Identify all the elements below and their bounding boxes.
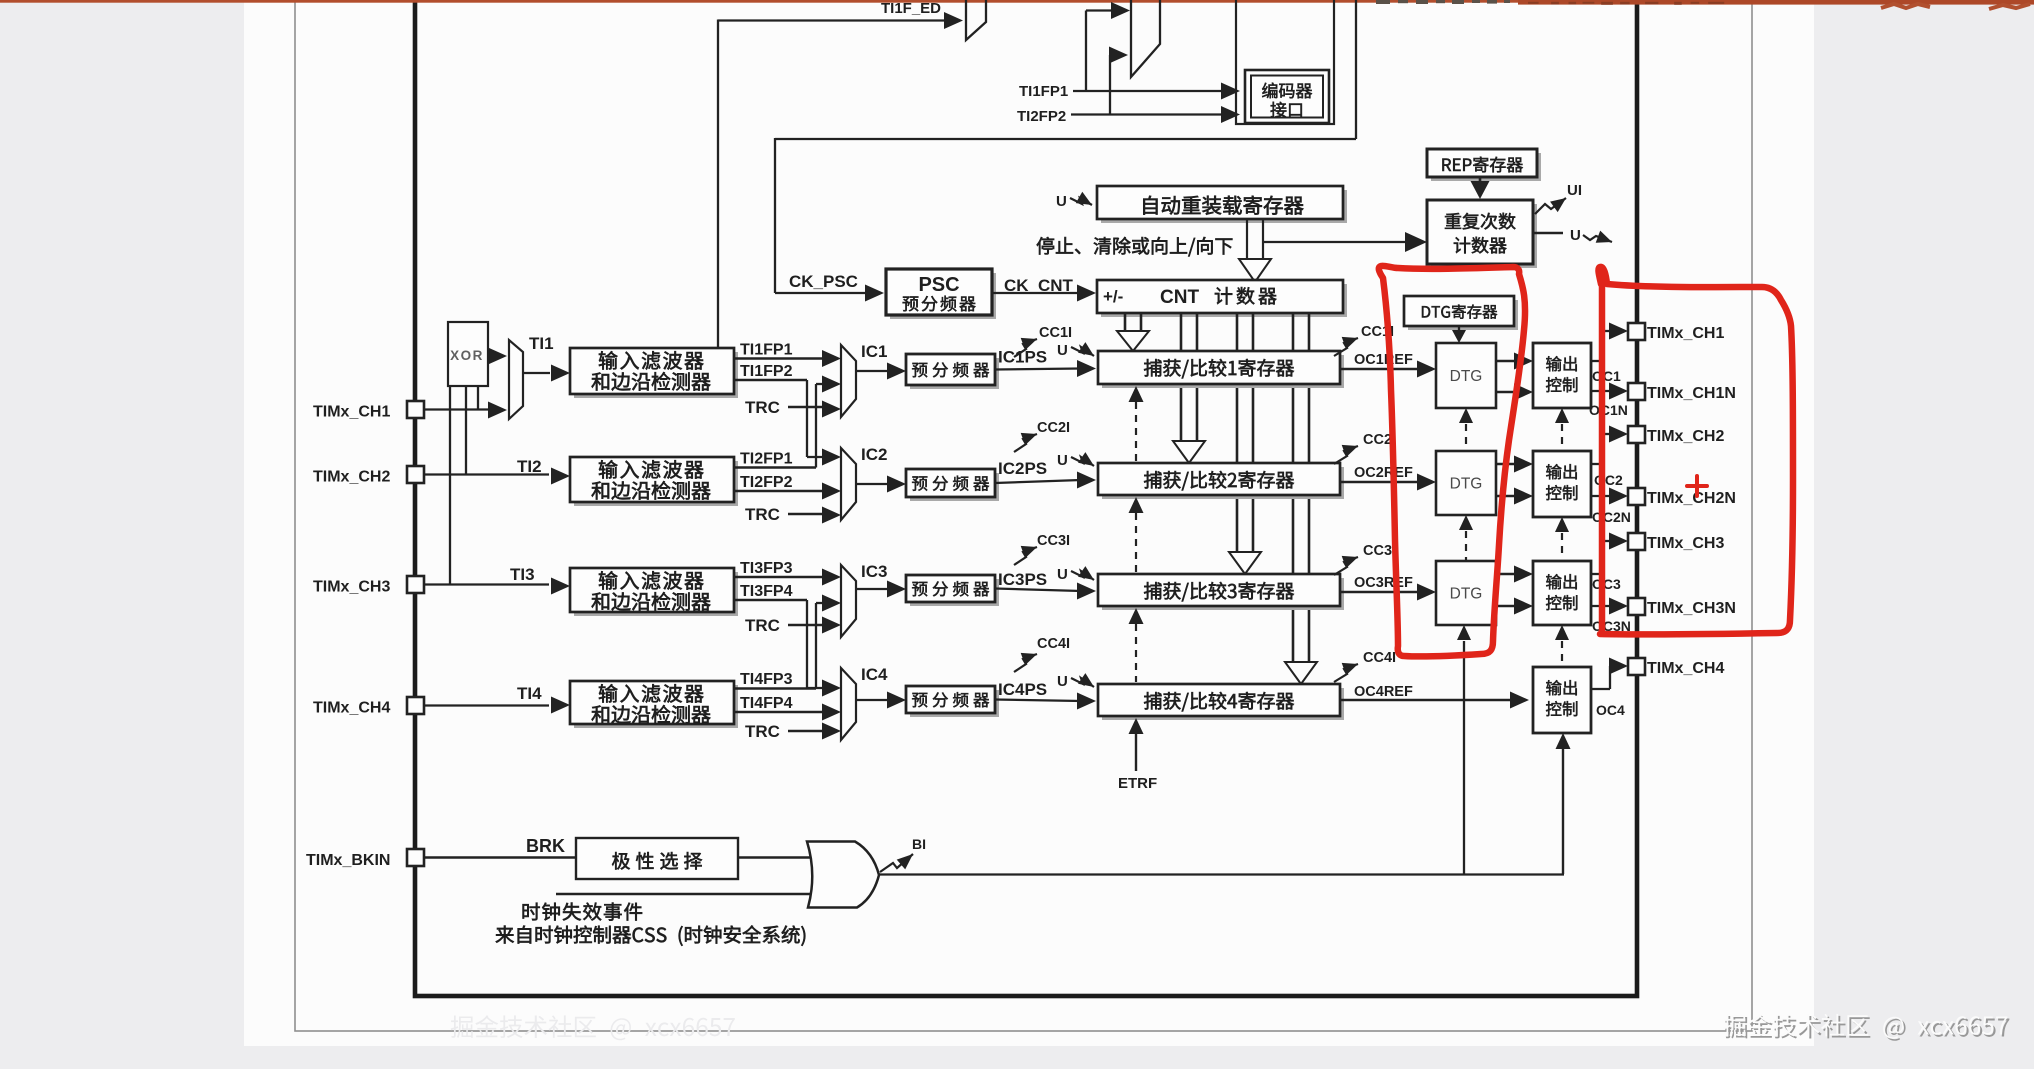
XOR box bbox=[448, 322, 488, 386]
label TIMx_BKIN bbox=[306, 852, 390, 869]
wire TI2FP2 to encoder bbox=[1071, 113, 1222, 115]
output control box 1 bbox=[1533, 343, 1591, 408]
wire TRC ch1 bbox=[788, 406, 824, 409]
label TI3FP3 bbox=[740, 560, 793, 577]
label CK_PSC bbox=[789, 272, 858, 291]
hollow arrow CNT to reg1 bbox=[1117, 313, 1149, 351]
output control text 3 l1 bbox=[1546, 574, 1577, 589]
output control text 4 l2 bbox=[1546, 701, 1577, 716]
ETRF arrow into reg4 bottom bbox=[1129, 718, 1144, 771]
label TIMx_CH2 bbox=[313, 469, 390, 486]
svg-text:IC3PS: IC3PS bbox=[998, 570, 1047, 589]
U event reg ch4 bbox=[1057, 673, 1094, 690]
capture/compare reg text ch3 bbox=[1144, 582, 1294, 601]
DTG box 1 bbox=[1436, 343, 1496, 408]
arrow TRC into IC1 mux bbox=[822, 401, 841, 418]
input filter box ch1 bbox=[570, 348, 738, 398]
svg-text:OC2N: OC2N bbox=[1592, 509, 1631, 525]
svg-text:TI1FP1: TI1FP1 bbox=[740, 342, 793, 359]
svg-text:CC3I: CC3I bbox=[1363, 543, 1396, 559]
repetition counter text l1 bbox=[1445, 213, 1516, 230]
output pin TIMx_CH2 bbox=[1628, 426, 1645, 443]
label TI4FP3 bbox=[740, 671, 793, 688]
arrow TRC into IC4 mux bbox=[822, 723, 841, 740]
wire prescaler to reg ch1 bbox=[995, 369, 1081, 370]
red annotation around DTG column bbox=[1379, 266, 1525, 657]
polarity select box bbox=[576, 838, 738, 879]
label TIMx_CH2N right bbox=[1647, 490, 1736, 507]
DTG text 2 bbox=[1450, 476, 1483, 493]
hollow arrow CNT to reg4 bbox=[1285, 313, 1317, 684]
wire U to repetition counter bbox=[1263, 241, 1409, 243]
label IC2 bbox=[861, 445, 887, 464]
CC3I left event arrow bbox=[1014, 546, 1037, 565]
XOR text bbox=[450, 348, 484, 363]
svg-text:TI2FP1: TI2FP1 bbox=[740, 451, 793, 468]
arrow into reg ch2 bbox=[1077, 472, 1096, 489]
filter text l1 ch4 bbox=[599, 684, 704, 703]
label TI2FP2 (encoder) bbox=[1017, 108, 1066, 125]
arrow DTG reg to DTG1 bbox=[1452, 326, 1466, 343]
REP register text bbox=[1442, 157, 1522, 173]
auto-reload text bbox=[1143, 196, 1303, 215]
capture/compare reg text ch4 bbox=[1144, 692, 1294, 711]
prescaler box ch1 bbox=[906, 354, 999, 389]
label TI1FP1 (encoder) bbox=[1019, 83, 1068, 100]
svg-text:OC2REF: OC2REF bbox=[1354, 465, 1413, 481]
IC mux ch2 bbox=[841, 448, 856, 520]
label CC1I left bbox=[1039, 325, 1072, 341]
arrow into CNT bbox=[1077, 285, 1096, 302]
mux output arrow ch2 bbox=[856, 476, 906, 493]
XOR output arrow bbox=[488, 348, 507, 365]
U event arrow right bbox=[1533, 227, 1612, 244]
svg-text:TI1: TI1 bbox=[529, 334, 554, 353]
DTG text 1 bbox=[1450, 368, 1483, 385]
output pin TIMx_CH4 bbox=[1628, 658, 1645, 675]
label ETRF bbox=[1118, 775, 1157, 792]
label CC4I right bbox=[1363, 650, 1396, 666]
U event reg ch2 bbox=[1057, 452, 1094, 469]
wire TI2FP2 up to flag bbox=[1110, 55, 1112, 115]
encoder text line2 bbox=[1270, 102, 1301, 118]
repetition counter box bbox=[1427, 200, 1537, 268]
svg-text:TIMx_CH3: TIMx_CH3 bbox=[313, 579, 390, 596]
stop clear text bbox=[1037, 237, 1233, 256]
trigger box bottom edge bbox=[775, 0, 1356, 139]
encoder interface box bbox=[1245, 70, 1329, 123]
mux output arrow ch4 bbox=[856, 692, 906, 709]
watermark juejin bbox=[1723, 1014, 2009, 1041]
IC mux ch3 bbox=[841, 565, 856, 637]
U event reg ch3 bbox=[1057, 566, 1094, 583]
label TIMx_CH2 right bbox=[1647, 428, 1724, 445]
IC mux ch4 bbox=[841, 668, 856, 740]
output control text 3 l2 bbox=[1546, 595, 1577, 610]
wire TRC ch3 bbox=[788, 624, 824, 627]
output control text 2 l2 bbox=[1546, 485, 1577, 500]
capture/compare reg text ch2 bbox=[1144, 471, 1294, 490]
arrow into edge-detector flag bbox=[944, 12, 963, 29]
wire prescaler to reg ch3 bbox=[995, 589, 1081, 592]
wire TI1FP1 to encoder bbox=[1073, 90, 1222, 92]
mux output arrow ch1 bbox=[856, 363, 906, 380]
svg-text:IC4: IC4 bbox=[861, 665, 888, 684]
svg-text:TIMx_CH4: TIMx_CH4 bbox=[1647, 660, 1724, 677]
IC mux ch1 bbox=[841, 345, 856, 417]
line BI to OC4 bottom bbox=[1556, 733, 1571, 874]
svg-text:U: U bbox=[1057, 342, 1068, 359]
U event into reload bbox=[1056, 192, 1092, 210]
label IC4PS bbox=[998, 680, 1047, 699]
svg-text:BI: BI bbox=[912, 836, 926, 852]
arrow into flag top bbox=[1111, 2, 1130, 19]
output control box 4 bbox=[1533, 667, 1591, 733]
arrow TI2 bbox=[551, 468, 570, 485]
wire TI1FP1 up to flag bbox=[1086, 11, 1112, 92]
svg-text:TIMx_CH2: TIMx_CH2 bbox=[313, 469, 390, 486]
svg-text:U: U bbox=[1057, 673, 1068, 690]
output control box 2 bbox=[1533, 451, 1591, 517]
label IC3PS bbox=[998, 570, 1047, 589]
label TI1FP2 bbox=[740, 363, 793, 380]
label OC2REF bbox=[1354, 465, 1413, 481]
arrow into repetition counter bbox=[1405, 232, 1427, 252]
svg-text:OC3: OC3 bbox=[1592, 576, 1621, 592]
OR gate bbox=[807, 842, 879, 908]
hollow down arrow reload to CNT bbox=[1239, 219, 1271, 282]
svg-text:OC1: OC1 bbox=[1592, 368, 1621, 384]
input filter box ch2 bbox=[570, 457, 738, 506]
label TI3FP4 bbox=[740, 583, 793, 600]
output control box 3 bbox=[1533, 561, 1591, 625]
prescaler text ch1 bbox=[912, 362, 989, 377]
label TRC ch4 bbox=[745, 722, 780, 741]
label OC2N bbox=[1592, 509, 1631, 525]
wire TI3FP4 down to IC4 mux bbox=[734, 600, 841, 697]
wire TI2FP1 up to IC1 mux bbox=[734, 376, 841, 468]
label OC3 bbox=[1592, 576, 1621, 592]
svg-text:TRC: TRC bbox=[745, 505, 780, 524]
TI1 mux bbox=[509, 340, 523, 419]
wire PSC to CNT bbox=[992, 292, 1078, 294]
capture/compare register box ch4 bbox=[1098, 684, 1344, 720]
svg-text:XOR: XOR bbox=[450, 348, 484, 363]
CNT text bbox=[1160, 287, 1276, 308]
dashed arrow into reg3 bottom bbox=[1129, 608, 1144, 682]
edge-detector flag symbol bbox=[966, 0, 986, 40]
svg-text:TIMx_CH4: TIMx_CH4 bbox=[313, 700, 390, 717]
svg-text:TI4FP3: TI4FP3 bbox=[740, 671, 793, 688]
svg-text:DTG: DTG bbox=[1450, 368, 1483, 385]
wire CH1 to mux bbox=[424, 408, 490, 410]
svg-text:U: U bbox=[1057, 452, 1068, 469]
DTG box 3 bbox=[1436, 561, 1496, 625]
label TIMx_CH1 right bbox=[1647, 325, 1724, 342]
dashed arrow into OC2 bottom bbox=[1555, 517, 1569, 558]
DTG box 2 bbox=[1436, 451, 1496, 515]
top-right red scribbles bbox=[1881, 4, 2030, 9]
label TIMx_CH1N right bbox=[1647, 385, 1736, 402]
label UI bbox=[1567, 182, 1582, 199]
capture/compare reg text ch1 bbox=[1144, 359, 1294, 378]
output control text 1 l1 bbox=[1546, 356, 1577, 371]
label TIMx_CH3 right bbox=[1647, 535, 1724, 552]
label TRC ch3 bbox=[745, 616, 780, 635]
svg-text:TIMx_CH1N: TIMx_CH1N bbox=[1647, 385, 1736, 402]
label OC4 bbox=[1596, 702, 1625, 718]
wire BI output bbox=[879, 873, 1564, 875]
watermark ghost left bbox=[451, 1015, 735, 1040]
svg-text:UI: UI bbox=[1567, 182, 1582, 199]
label IC3 bbox=[861, 562, 887, 581]
CC3I right event arrow bbox=[1334, 556, 1358, 575]
wire prescaler to reg ch2 bbox=[995, 480, 1081, 483]
input pin TIMx_CH2 bbox=[407, 466, 424, 483]
svg-text:TIMx_CH3: TIMx_CH3 bbox=[1647, 535, 1724, 552]
wire TRC ch2 bbox=[788, 513, 824, 516]
dashed arrow into OC3 bottom bbox=[1555, 625, 1569, 664]
svg-text:U: U bbox=[1056, 193, 1067, 210]
label TIMx_CH4 bbox=[313, 700, 390, 717]
wire BKIN to polarity box bbox=[424, 856, 576, 859]
arrow TRC into IC2 mux bbox=[822, 507, 841, 524]
svg-text:U: U bbox=[1570, 227, 1581, 244]
label TI1F_ED bbox=[881, 0, 941, 17]
input pin TIMx_CH3 bbox=[407, 576, 424, 593]
input pin TIMx_CH4 bbox=[407, 697, 424, 714]
clock fail text l1 bbox=[523, 903, 643, 921]
DTG register box bbox=[1404, 296, 1518, 330]
prescaler box ch2 bbox=[906, 469, 999, 501]
wire TI1FP2 down to IC2 mux bbox=[734, 380, 841, 466]
CC4I right event arrow bbox=[1334, 663, 1358, 682]
label OC3N bbox=[1592, 618, 1631, 634]
wire prescaler to reg ch4 bbox=[995, 700, 1081, 702]
CC4I left event arrow bbox=[1014, 653, 1037, 672]
label OC3REF bbox=[1354, 575, 1413, 591]
svg-text:TIMx_BKIN: TIMx_BKIN bbox=[306, 852, 390, 869]
label OC1REF bbox=[1354, 352, 1413, 368]
svg-text:CK_PSC: CK_PSC bbox=[789, 272, 858, 291]
dashed arrow into DTG2 bottom bbox=[1459, 515, 1473, 560]
svg-text:TIMx_CH1: TIMx_CH1 bbox=[313, 404, 390, 421]
svg-text:IC2: IC2 bbox=[861, 445, 887, 464]
svg-text:TI1F_ED: TI1F_ED bbox=[881, 0, 941, 17]
clock fail text l2 bbox=[496, 925, 806, 945]
svg-text:TI1FP2: TI1FP2 bbox=[740, 363, 793, 380]
arrow TI2FP2 encoder bbox=[1221, 106, 1240, 123]
output pin TIMx_CH1 bbox=[1628, 323, 1645, 340]
encoder text line1 bbox=[1262, 83, 1312, 99]
arrow TI1FP1 encoder bbox=[1221, 83, 1240, 100]
wire TI3FP3 to IC3 mux bbox=[734, 569, 841, 586]
CC1I right event arrow bbox=[1334, 337, 1358, 356]
svg-text:CC4I: CC4I bbox=[1037, 636, 1070, 652]
label CK_CNT bbox=[1004, 276, 1074, 295]
label OC1N bbox=[1589, 402, 1628, 418]
DTG2 output arrows bbox=[1496, 456, 1533, 505]
REP register box bbox=[1427, 149, 1541, 181]
red plus mark bbox=[1687, 476, 1707, 496]
svg-text:IC4PS: IC4PS bbox=[998, 680, 1047, 699]
wire CK_PSC path bbox=[775, 138, 866, 293]
label BI bbox=[912, 836, 926, 852]
svg-text:TI3FP3: TI3FP3 bbox=[740, 560, 793, 577]
wire OC1N to CH1N pin bbox=[1591, 383, 1628, 400]
outer thin frame bbox=[295, 0, 1752, 1031]
output control text 4 l1 bbox=[1546, 680, 1577, 695]
DTG1 output arrows bbox=[1496, 353, 1533, 401]
label TI1 bbox=[529, 334, 554, 353]
wire CH3 to filter3 bbox=[424, 565, 549, 585]
prescaler box ch4 bbox=[906, 686, 999, 717]
filter text l1 ch1 bbox=[599, 351, 704, 370]
wire CH4 to filter4 bbox=[424, 684, 549, 706]
svg-text:TI4: TI4 bbox=[517, 684, 542, 703]
input filter box ch3 bbox=[570, 568, 738, 616]
svg-text:TI2FP2: TI2FP2 bbox=[740, 474, 793, 491]
input pin TIMx_BKIN bbox=[407, 849, 424, 866]
label TIMx_CH3 bbox=[313, 579, 390, 596]
filter text l1 ch2 bbox=[599, 460, 704, 479]
arrow into reg ch4 bbox=[1077, 693, 1096, 710]
svg-text:TI3FP4: TI3FP4 bbox=[740, 583, 793, 600]
CNT +/- text bbox=[1103, 287, 1123, 306]
svg-text:OC4REF: OC4REF bbox=[1354, 684, 1413, 700]
label TIMx_CH1 bbox=[313, 404, 390, 421]
label CC3I left bbox=[1037, 533, 1070, 549]
wire OC2 to CH2 pin bbox=[1591, 426, 1628, 465]
wire TI4FP4 to IC4 mux bbox=[734, 704, 841, 721]
svg-text:TI2: TI2 bbox=[517, 457, 542, 476]
label OC2 bbox=[1594, 472, 1623, 488]
svg-text:OC4: OC4 bbox=[1596, 702, 1625, 718]
clock fail input wire bbox=[556, 893, 815, 895]
PSC text bbox=[903, 274, 976, 311]
hollow arrow CNT to reg2 bbox=[1173, 313, 1205, 463]
svg-text:IC1: IC1 bbox=[861, 342, 887, 361]
wire OC4REF bbox=[1340, 692, 1529, 709]
arrow into flag mid bbox=[1109, 47, 1128, 64]
svg-text:TIMx_CH2: TIMx_CH2 bbox=[1647, 428, 1724, 445]
CC1I left event arrow bbox=[1014, 338, 1037, 357]
BI event arrow bbox=[880, 854, 913, 872]
svg-text:TI3: TI3 bbox=[510, 565, 535, 584]
dashed arrow into reg2 bottom bbox=[1129, 497, 1144, 572]
PSC prescaler box bbox=[886, 269, 996, 319]
prescaler text ch3 bbox=[912, 581, 989, 596]
arrow TI3 bbox=[551, 578, 570, 595]
svg-text:CC3I: CC3I bbox=[1037, 533, 1070, 549]
svg-text:DTG: DTG bbox=[1450, 586, 1483, 603]
wire TRC ch4 bbox=[788, 730, 824, 733]
capture/compare register box ch1 bbox=[1098, 351, 1344, 388]
label BRK bbox=[526, 836, 565, 856]
DTG text 3 bbox=[1450, 586, 1483, 603]
filter text l2 ch4 bbox=[592, 705, 711, 724]
arrow into reg ch3 bbox=[1077, 583, 1096, 600]
svg-text:TIMx_CH1: TIMx_CH1 bbox=[1647, 325, 1724, 342]
repetition counter text l2 bbox=[1454, 237, 1507, 254]
CNT counter box bbox=[1097, 280, 1347, 317]
label TRC ch1 bbox=[745, 398, 780, 417]
flag symbol 2 bbox=[1131, 0, 1160, 77]
output control text 2 l1 bbox=[1546, 464, 1577, 479]
output pin TIMx_CH2N bbox=[1628, 488, 1645, 505]
wire TI1F_ED from filter1 top bbox=[718, 20, 946, 349]
wire CH2 to filter2 bbox=[424, 457, 549, 476]
line DTG3 bottom to BI wire bbox=[1457, 625, 1471, 874]
svg-text:BRK: BRK bbox=[526, 836, 565, 856]
svg-text:IC3: IC3 bbox=[861, 562, 887, 581]
svg-text:+/-: +/- bbox=[1103, 287, 1123, 306]
svg-text:PSC: PSC bbox=[918, 274, 959, 296]
svg-text:CNT: CNT bbox=[1160, 287, 1199, 308]
svg-text:CC4I: CC4I bbox=[1363, 650, 1396, 666]
svg-text:OC1N: OC1N bbox=[1589, 402, 1628, 418]
svg-text:CC1I: CC1I bbox=[1039, 325, 1072, 341]
prescaler text ch4 bbox=[912, 692, 989, 707]
svg-text:TRC: TRC bbox=[745, 616, 780, 635]
encoder enclosure box bbox=[1236, 0, 1334, 124]
svg-text:TI2FP2: TI2FP2 bbox=[1017, 108, 1066, 125]
output pin TIMx_CH1N bbox=[1628, 383, 1645, 400]
svg-text:OC2: OC2 bbox=[1594, 472, 1623, 488]
arrow TRC into IC3 mux bbox=[822, 617, 841, 634]
svg-text:CC2I: CC2I bbox=[1037, 420, 1070, 436]
label IC1PS bbox=[998, 348, 1047, 367]
label TI1FP1 bbox=[740, 342, 793, 359]
svg-text:IC2PS: IC2PS bbox=[998, 459, 1047, 478]
label IC2PS bbox=[998, 459, 1047, 478]
wire TI1FP1 to IC1 mux bbox=[734, 350, 841, 367]
white document page bbox=[244, 0, 1814, 1046]
svg-text:TI4FP4: TI4FP4 bbox=[740, 695, 793, 712]
arrow into PSC bbox=[865, 285, 884, 302]
wire TI2FP2 to IC2 mux bbox=[734, 483, 841, 500]
filter text l2 ch2 bbox=[592, 481, 711, 500]
wire OC1 to CH1 pin bbox=[1591, 323, 1628, 362]
input filter box ch4 bbox=[570, 681, 738, 728]
output control text 1 l2 bbox=[1546, 377, 1577, 392]
capture/compare register box ch2 bbox=[1098, 463, 1344, 499]
red annotation around output pins bbox=[1598, 267, 1793, 634]
filter text l2 ch3 bbox=[592, 592, 711, 611]
label OC4REF bbox=[1354, 684, 1413, 700]
wire OC2N to CH2N pin bbox=[1591, 488, 1628, 505]
arrow TI4 bbox=[551, 697, 570, 714]
polarity select text bbox=[612, 852, 702, 870]
arrow into reg ch1 bbox=[1077, 360, 1096, 377]
label TIMx_CH4 right bbox=[1647, 660, 1724, 677]
dashed arrow into DTG1 bottom bbox=[1459, 408, 1473, 450]
wire OC3N to CH3N pin bbox=[1591, 598, 1628, 615]
hollow arrow CNT to reg3 bbox=[1229, 313, 1261, 574]
svg-text:TIMx_CH2N: TIMx_CH2N bbox=[1647, 490, 1736, 507]
svg-text:ETRF: ETRF bbox=[1118, 775, 1157, 792]
top red annotation bar bbox=[0, 0, 2034, 5]
CC2I right event arrow bbox=[1334, 445, 1358, 464]
svg-text:TIMx_CH3N: TIMx_CH3N bbox=[1647, 600, 1736, 617]
label TI2FP1 bbox=[740, 451, 793, 468]
cut-off title text remnants bbox=[1376, 0, 1510, 4]
label TI2FP2 bbox=[740, 474, 793, 491]
auto-reload register box bbox=[1097, 186, 1347, 223]
mux output arrow ch3 bbox=[856, 581, 906, 598]
CC2I left event arrow bbox=[1014, 433, 1037, 452]
svg-text:TI1FP1: TI1FP1 bbox=[1019, 83, 1068, 100]
